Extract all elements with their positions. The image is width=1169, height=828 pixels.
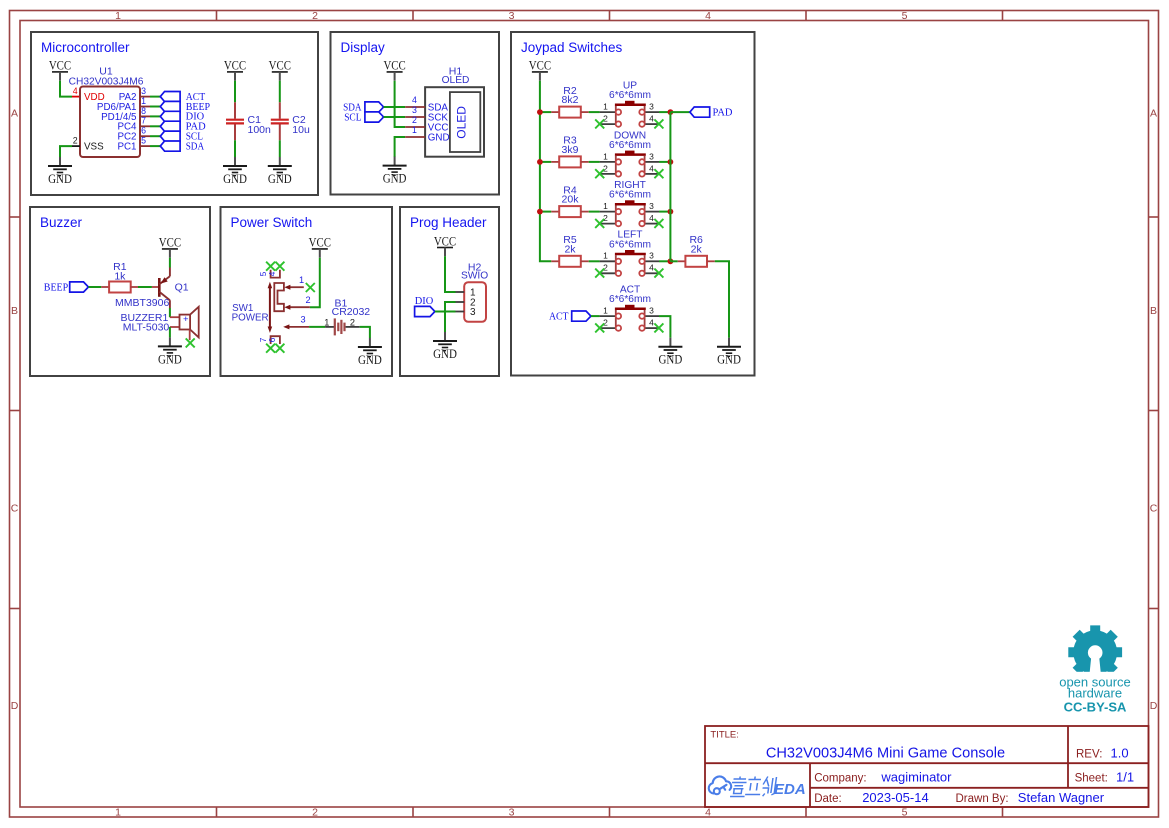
- wire B1 to GND: [360, 327, 370, 338]
- svg-text:8: 8: [141, 106, 146, 116]
- net flag BEEP: [44, 282, 89, 294]
- resistor R3 3k9: [551, 135, 588, 168]
- power symbol VCC (prog header): [434, 234, 456, 256]
- svg-text:2: 2: [305, 295, 310, 305]
- wire VCC bus left (joypad): [540, 81, 551, 262]
- svg-text:4: 4: [649, 213, 654, 223]
- svg-text:Sheet:: Sheet:: [1075, 772, 1108, 784]
- wire U1 pin 8 to net flag DIO: [150, 115, 160, 117]
- wire VCC to H1 pin 2: [395, 81, 406, 127]
- svg-text:GND: GND: [717, 353, 741, 367]
- svg-text:CR2032: CR2032: [332, 306, 371, 318]
- resistor R5 2k: [551, 234, 588, 267]
- open source hardware logo: [1060, 625, 1130, 684]
- svg-text:1: 1: [603, 102, 608, 112]
- svg-text:3: 3: [649, 102, 654, 112]
- svg-text:VCC: VCC: [309, 236, 331, 250]
- H1 pin 3 SCK: [405, 105, 448, 123]
- wire switch UP to right bus: [659, 111, 670, 113]
- section box: Buzzer: [30, 207, 210, 376]
- no-connect pin4 (LEFT): [654, 269, 663, 278]
- H1 pin 1 GND: [405, 125, 449, 143]
- ground symbol (C1): [223, 157, 247, 186]
- wire R3 to switch DOWN: [589, 161, 600, 163]
- OSHW logo caption: [1059, 675, 1131, 715]
- svg-text:VCC: VCC: [224, 59, 246, 73]
- junction dots row LEFT: [668, 258, 674, 264]
- svg-text:100n: 100n: [248, 124, 272, 136]
- ground symbol (display): [383, 157, 407, 186]
- resistor R1 1k: [101, 261, 138, 292]
- svg-text:Q1: Q1: [175, 281, 189, 293]
- power symbol VCC (joypad): [529, 59, 551, 81]
- svg-text:2: 2: [350, 317, 355, 327]
- svg-text:3: 3: [141, 86, 146, 96]
- wire VCC to U1 pin 4: [60, 81, 72, 97]
- svg-text:GND: GND: [223, 172, 247, 186]
- wire VCC to H2 pin 1: [445, 256, 456, 292]
- svg-text:Prog Header: Prog Header: [410, 215, 487, 230]
- svg-text:wagiminator: wagiminator: [880, 769, 952, 784]
- wire switch DOWN to right bus: [659, 161, 670, 163]
- svg-text:A: A: [11, 108, 18, 120]
- svg-text:3: 3: [300, 315, 305, 325]
- svg-text:GND: GND: [428, 132, 450, 143]
- svg-text:1: 1: [115, 807, 121, 819]
- svg-text:1: 1: [603, 201, 608, 211]
- wire R1 to Q1 base: [138, 286, 152, 288]
- svg-text:2: 2: [312, 807, 318, 819]
- svg-text:VCC: VCC: [159, 236, 181, 250]
- svg-text:PAD: PAD: [713, 107, 733, 118]
- svg-text:VCC: VCC: [383, 59, 405, 73]
- no-connect pin2 (LEFT): [595, 269, 604, 278]
- svg-text:SDA: SDA: [186, 141, 205, 152]
- net flag DIO: [160, 111, 204, 122]
- section box: Joypad Switches: [511, 32, 755, 376]
- U1 pin 2 VSS stub: [72, 136, 80, 147]
- ground symbol (prog header): [433, 332, 457, 361]
- svg-text:D: D: [1150, 700, 1158, 712]
- no-connect buzzer pin 3: [186, 338, 195, 347]
- power symbol VCC (C1): [224, 59, 246, 81]
- junction dots row RIGHT: [537, 209, 543, 215]
- U1 pin 8 PD1/4/5: [101, 106, 150, 123]
- svg-text:7: 7: [141, 116, 146, 126]
- battery B1 CR2032: [324, 297, 370, 335]
- wire SCL to H1 pin 3: [384, 116, 406, 118]
- power symbol VCC (C2): [269, 59, 291, 81]
- svg-text:6*6*6mm: 6*6*6mm: [609, 239, 651, 250]
- buzzer BUZZER1 MLT-5030: [120, 307, 198, 340]
- wire bus to R2: [540, 111, 551, 113]
- svg-text:2: 2: [73, 136, 78, 146]
- section box: Microcontroller: [31, 32, 318, 195]
- svg-text:7: 7: [259, 337, 268, 342]
- resistor R6 2k: [670, 234, 714, 267]
- wire DIO to H2 pin 3: [435, 311, 456, 313]
- wire switch LEFT to right bus: [659, 260, 670, 262]
- svg-text:8k2: 8k2: [562, 94, 579, 106]
- svg-text:4: 4: [705, 10, 711, 22]
- wire R5 to switch LEFT: [589, 260, 600, 262]
- resistor R4 20k: [551, 184, 588, 217]
- svg-text:1/1: 1/1: [1116, 769, 1134, 784]
- wire U1 pin 6 to net flag SCL: [150, 135, 160, 137]
- svg-text:6: 6: [141, 126, 146, 136]
- svg-text:2k: 2k: [691, 243, 703, 255]
- wire R2 to switch UP: [589, 111, 600, 113]
- svg-text:GND: GND: [383, 172, 407, 186]
- svg-text:C: C: [1150, 503, 1158, 515]
- svg-text:3: 3: [509, 807, 515, 819]
- svg-text:D: D: [11, 700, 19, 712]
- net flag BEEP: [160, 101, 210, 112]
- no-connect pin4 (RIGHT): [654, 219, 663, 228]
- svg-text:4: 4: [73, 86, 78, 96]
- no-connect SW1 pin 1: [306, 283, 315, 292]
- svg-text:+: +: [183, 314, 189, 325]
- svg-text:3: 3: [412, 105, 417, 115]
- wire U1 pin 3 to net flag ACT: [150, 96, 160, 98]
- svg-text:5: 5: [141, 136, 146, 146]
- wire buzzer to GND: [169, 327, 171, 337]
- no-connect SW1 pin 4: [275, 262, 284, 271]
- svg-text:GND: GND: [433, 347, 457, 361]
- svg-text:2: 2: [603, 114, 608, 124]
- svg-text:1: 1: [299, 275, 304, 285]
- svg-text:SWIO: SWIO: [461, 271, 488, 282]
- svg-text:1: 1: [324, 317, 329, 327]
- U1 pin 1 PD6/PA1: [97, 96, 150, 113]
- no-connect pin4 (UP): [654, 119, 663, 128]
- svg-text:VCC: VCC: [434, 234, 456, 248]
- svg-text:4: 4: [649, 114, 654, 124]
- svg-text:EDA: EDA: [774, 781, 806, 798]
- svg-text:POWER: POWER: [232, 313, 269, 324]
- wire R6 to GND: [715, 261, 729, 337]
- svg-text:3: 3: [470, 307, 476, 318]
- resistor R2 8k2: [551, 85, 588, 118]
- svg-text:2: 2: [603, 163, 608, 173]
- svg-text:3k9: 3k9: [562, 144, 579, 156]
- wire BEEP to R1: [88, 286, 101, 288]
- wire C1 to GND: [234, 140, 236, 157]
- no-connect pin4 (DOWN): [654, 169, 663, 178]
- svg-text:VSS: VSS: [84, 142, 104, 153]
- svg-text:4: 4: [412, 95, 417, 105]
- no-connect pin2 (RIGHT): [595, 219, 604, 228]
- net flag SCL: [160, 131, 203, 142]
- ground symbol (C2): [268, 157, 292, 186]
- svg-text:A: A: [1150, 108, 1157, 120]
- wire U1 pin 1 to net flag BEEP: [150, 106, 160, 108]
- wire U1 VSS to GND: [60, 146, 72, 157]
- svg-text:5: 5: [902, 807, 908, 819]
- power symbol VCC (U1 supply): [49, 59, 71, 81]
- svg-text:5: 5: [259, 271, 268, 276]
- net flag SDA: [160, 141, 205, 152]
- H1 pin 2 VCC: [405, 115, 448, 133]
- svg-text:REV:: REV:: [1076, 748, 1102, 760]
- svg-text:GND: GND: [358, 353, 382, 367]
- svg-text:4: 4: [649, 318, 654, 328]
- svg-text:2: 2: [312, 10, 318, 22]
- net flag PAD: [690, 107, 733, 118]
- svg-text:PC1: PC1: [117, 142, 136, 153]
- svg-text:3: 3: [509, 10, 515, 22]
- ground symbol (buzzer): [158, 337, 182, 366]
- net flag SDA (display): [343, 102, 384, 113]
- wire H1 pin 1 to GND: [395, 137, 406, 157]
- svg-text:6*6*6mm: 6*6*6mm: [609, 90, 651, 101]
- no-connect pin2 (DOWN): [595, 169, 604, 178]
- power symbol VCC (power switch): [309, 236, 331, 258]
- connector H1 OLED: [425, 66, 484, 157]
- net flag ACT (joypad): [549, 311, 591, 322]
- svg-text:MLT-5030: MLT-5030: [123, 322, 170, 334]
- wire VCC to C1: [234, 81, 236, 103]
- U1 pin 4 VDD stub: [72, 86, 80, 97]
- ground symbol (B1): [358, 338, 382, 367]
- net flag DIO (prog): [415, 296, 435, 317]
- svg-text:6: 6: [268, 337, 277, 342]
- svg-text:VCC: VCC: [529, 59, 551, 73]
- svg-text:3: 3: [649, 251, 654, 261]
- wire bus to R4: [540, 211, 551, 213]
- svg-text:4: 4: [649, 263, 654, 273]
- capacitor C2 10u: [271, 102, 310, 140]
- U1 pin 6 PC2: [117, 126, 150, 143]
- svg-text:1k: 1k: [114, 271, 126, 283]
- title block texts: [710, 730, 1134, 806]
- wire VCC to SW1 pin 2: [310, 258, 320, 308]
- svg-text:BEEP: BEEP: [44, 282, 69, 293]
- wire C2 to GND: [279, 140, 281, 157]
- net flag ACT: [160, 92, 205, 103]
- wire Q1 collector to buzzer: [169, 308, 171, 317]
- wire switch RIGHT to right bus: [659, 211, 670, 213]
- svg-text:GND: GND: [158, 352, 182, 366]
- svg-text:ACT: ACT: [549, 311, 569, 322]
- switch LEFT 6*6*6mm: [600, 230, 659, 276]
- wire SW1 pin 3 to B1: [309, 326, 325, 328]
- svg-text:4: 4: [268, 271, 277, 276]
- svg-text:1: 1: [603, 306, 608, 316]
- svg-text:Drawn By:: Drawn By:: [956, 793, 1009, 805]
- svg-text:2: 2: [603, 318, 608, 328]
- svg-text:3: 3: [649, 151, 654, 161]
- junction dots row UP: [537, 109, 543, 115]
- svg-text:6*6*6mm: 6*6*6mm: [609, 140, 651, 151]
- no-connect pin4 (ACT): [654, 323, 663, 332]
- svg-text:5: 5: [902, 10, 908, 22]
- svg-text:MMBT3906: MMBT3906: [115, 297, 169, 309]
- svg-text:1.0: 1.0: [1111, 745, 1129, 760]
- svg-text:1: 1: [603, 251, 608, 261]
- U1 pin 3 PA2: [119, 86, 150, 103]
- svg-text:C: C: [11, 503, 19, 515]
- svg-text:OLED: OLED: [455, 106, 469, 139]
- wire ACT switch to GND: [659, 316, 670, 338]
- svg-text:2k: 2k: [564, 243, 576, 255]
- net flag PAD: [160, 121, 205, 132]
- section box: Power Switch: [221, 207, 393, 376]
- svg-text:2: 2: [603, 213, 608, 223]
- svg-text:Buzzer: Buzzer: [40, 215, 83, 230]
- wire U1 pin 7 to net flag PAD: [150, 125, 160, 127]
- svg-text:10u: 10u: [292, 124, 310, 136]
- svg-text:4: 4: [705, 807, 711, 819]
- svg-text:Stefan Wagner: Stefan Wagner: [1018, 790, 1105, 805]
- svg-text:Date:: Date:: [814, 793, 842, 805]
- svg-text:1: 1: [603, 151, 608, 161]
- wire bus to R3: [540, 161, 551, 163]
- no-connect SW1 pin 6: [275, 344, 284, 353]
- ground symbol (U1): [48, 157, 72, 186]
- svg-text:20k: 20k: [562, 194, 580, 206]
- U1 pin 7 PC4: [117, 116, 150, 133]
- svg-text:Microcontroller: Microcontroller: [41, 40, 130, 55]
- switch UP 6*6*6mm: [600, 81, 659, 127]
- wire bus to PAD flag: [670, 111, 690, 113]
- svg-text:VCC: VCC: [269, 59, 291, 73]
- switch ACT 6*6*6mm: [600, 285, 659, 331]
- wire right bus (joypad): [669, 112, 671, 261]
- EasyEDA (JLC) logo: [709, 776, 731, 794]
- switch DOWN 6*6*6mm: [600, 130, 659, 176]
- op-amp U1 body CH32V003J4M6: [69, 66, 144, 158]
- svg-text:GND: GND: [48, 172, 72, 186]
- title block: [705, 726, 1149, 807]
- svg-text:1: 1: [115, 10, 121, 22]
- wire ACT flag to switch: [591, 315, 600, 317]
- section box: Display: [331, 32, 500, 195]
- no-connect pin2 (UP): [595, 119, 604, 128]
- power symbol VCC (display): [383, 59, 405, 81]
- svg-text:GND: GND: [268, 172, 292, 186]
- wire VCC to Q1 emitter: [169, 258, 171, 268]
- ground symbol (ACT): [658, 338, 682, 367]
- svg-text:6*6*6mm: 6*6*6mm: [609, 190, 651, 201]
- switch SW1 POWER: [232, 270, 311, 344]
- svg-text:B: B: [1150, 305, 1157, 317]
- svg-text:DIO: DIO: [415, 296, 434, 307]
- switch RIGHT 6*6*6mm: [600, 180, 659, 226]
- wire SDA to H1 pin 4: [384, 106, 406, 108]
- svg-text:1: 1: [141, 96, 146, 106]
- svg-text:CC-BY-SA: CC-BY-SA: [1064, 700, 1127, 715]
- svg-text:3: 3: [649, 201, 654, 211]
- svg-text:CH32V003J4M6 Mini Game Console: CH32V003J4M6 Mini Game Console: [766, 745, 1005, 761]
- no-connect pin2 (ACT): [595, 323, 604, 332]
- svg-text:VCC: VCC: [49, 59, 71, 73]
- svg-text:2023-05-14: 2023-05-14: [862, 790, 929, 805]
- svg-text:2: 2: [603, 263, 608, 273]
- junction dots row DOWN: [537, 159, 543, 165]
- H1 pin 4 SDA: [405, 95, 448, 113]
- wire U1 pin 5 to net flag SDA: [150, 145, 160, 147]
- no-connect SW1 pin 5: [266, 262, 275, 271]
- wire R4 to switch RIGHT: [589, 211, 600, 213]
- svg-text:B: B: [11, 305, 18, 317]
- connector H2 SWIO: [456, 261, 489, 321]
- svg-text:CH32V003J4M6: CH32V003J4M6: [69, 76, 144, 87]
- svg-text:Power Switch: Power Switch: [231, 215, 313, 230]
- svg-text:1: 1: [412, 125, 417, 135]
- svg-text:hardware: hardware: [1068, 686, 1122, 701]
- svg-text:2: 2: [412, 115, 417, 125]
- net flag SCL (display): [344, 112, 383, 123]
- svg-text:Display: Display: [341, 40, 386, 55]
- no-connect SW1 pin 7: [266, 344, 275, 353]
- svg-text:Joypad Switches: Joypad Switches: [521, 40, 623, 55]
- svg-text:GND: GND: [659, 353, 683, 367]
- wire VCC to C2: [279, 81, 281, 103]
- ground symbol (R6): [717, 338, 741, 367]
- U1 pin 5 PC1: [117, 136, 150, 153]
- svg-text:SCL: SCL: [344, 112, 361, 123]
- transistor Q1 MMBT3906: [115, 268, 189, 310]
- section box: Prog Header: [400, 207, 499, 376]
- svg-text:3: 3: [649, 306, 654, 316]
- power symbol VCC (Q1): [159, 236, 181, 258]
- wire H2 pin 2 to GND: [445, 302, 456, 337]
- capacitor C1 100n: [226, 102, 271, 140]
- svg-text:Company:: Company:: [814, 772, 866, 784]
- svg-text:OLED: OLED: [442, 75, 470, 86]
- svg-text:6*6*6mm: 6*6*6mm: [609, 294, 651, 305]
- svg-text:4: 4: [649, 163, 654, 173]
- svg-text:TITLE:: TITLE:: [710, 730, 739, 741]
